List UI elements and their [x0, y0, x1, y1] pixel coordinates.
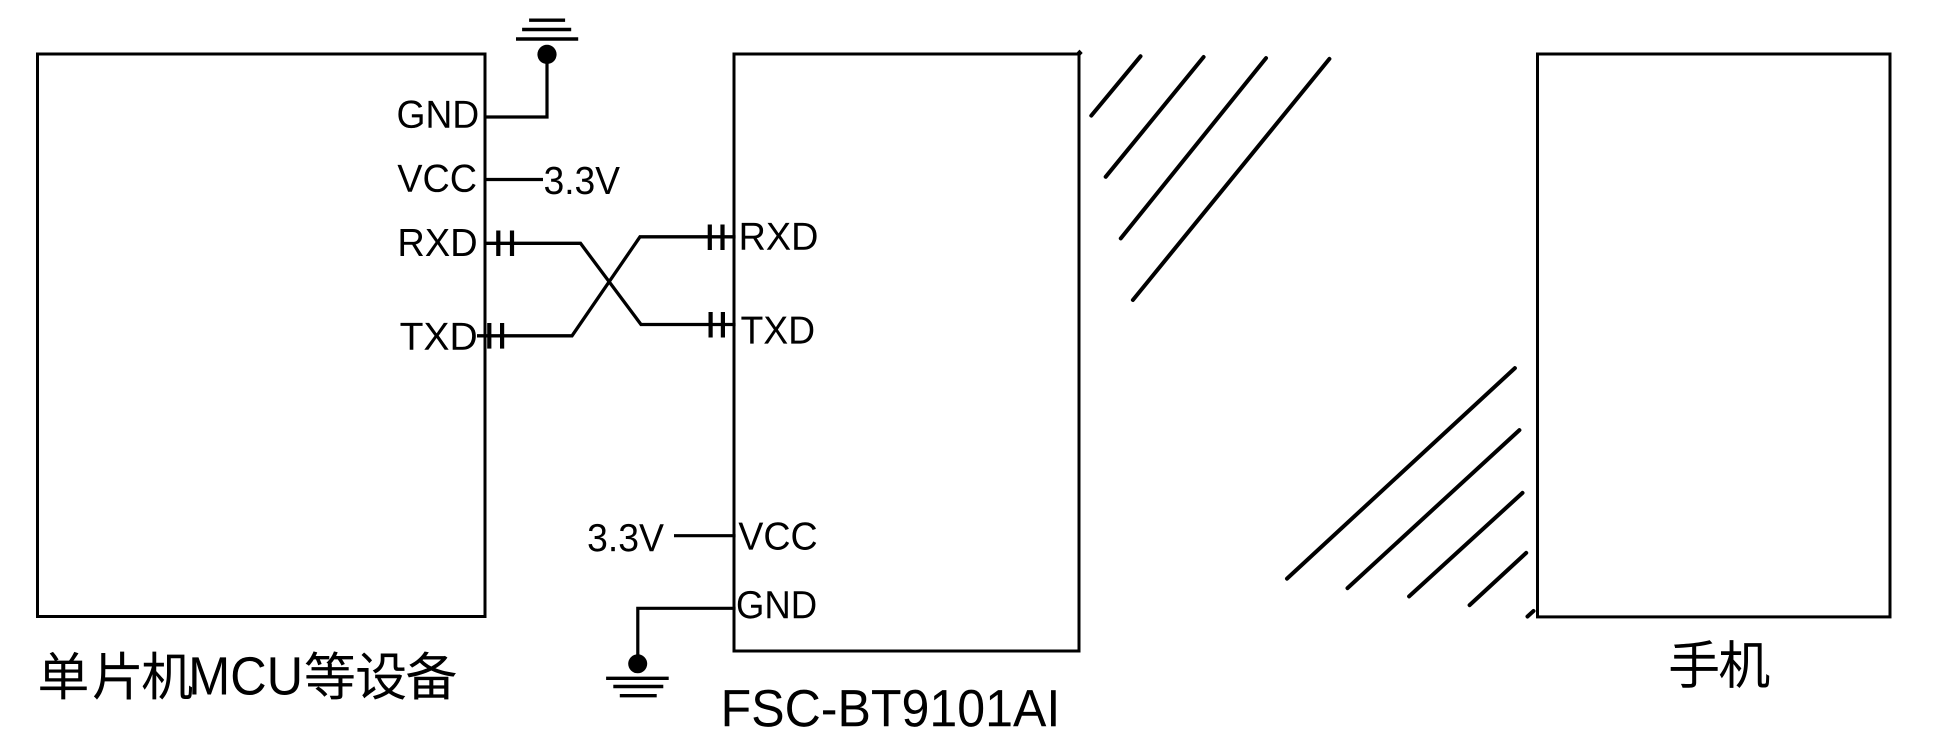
pin label RXD (MCU): [400, 229, 423, 256]
corner join artifact on module box: [1076, 50, 1082, 57]
pin tick marks RXD (module): [708, 225, 712, 251]
pin label RXD (module): [742, 223, 764, 250]
caption CJK: 等设备: [306, 651, 354, 699]
pin tick marks RXD (MCU): [496, 231, 500, 257]
ground junction dot (top): [537, 45, 556, 64]
pin label TXD (module): [741, 317, 762, 344]
ground junction dot (bottom): [628, 654, 647, 673]
pin tick marks TXD (module): [708, 312, 712, 338]
pin label TXD (MCU): [400, 323, 422, 350]
phone box: [1538, 54, 1891, 617]
pin label GND (module): [738, 591, 762, 619]
ground symbol (bottom): [606, 678, 669, 695]
MCU device box: [38, 54, 486, 617]
caption: FSC-BT9101AI module name: [725, 690, 749, 726]
wire crossover RXD(MCU) to TXD(module): [484, 243, 736, 324]
wireless link hatch fan (lower): [1287, 368, 1534, 616]
pin label VCC (MCU): [397, 165, 422, 192]
pin tick marks TXD (MCU): [487, 323, 491, 349]
net label 3.3V (MCU side): [545, 167, 563, 195]
ground symbol (top): [516, 20, 578, 39]
module FSC-BT9101AI box: [734, 54, 1079, 651]
pin label VCC (module): [738, 523, 763, 550]
wireless link hatch fan (upper): [1091, 56, 1329, 300]
wire VCC (MCU) to 3.3V: [485, 178, 543, 181]
wire GND (module) to ground: [638, 608, 736, 660]
pin label GND (MCU): [398, 100, 422, 128]
wire GND (MCU) to ground: [485, 58, 547, 117]
wire crossover TXD(MCU) to RXD(module): [477, 237, 736, 336]
caption latin: MCU: [192, 657, 226, 694]
wire 3.3V to VCC (module): [674, 534, 736, 537]
net label 3.3V (module side): [589, 524, 607, 552]
caption CJK: 单片机: [40, 652, 87, 700]
caption CJK: 手机 phone: [1671, 640, 1718, 688]
